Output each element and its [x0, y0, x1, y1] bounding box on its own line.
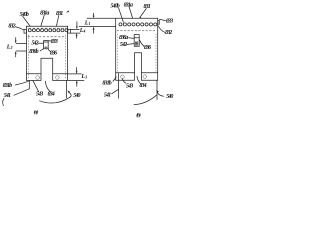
- leader 543 (a): [33, 81, 39, 92]
- hidden line 833 dashed horizontal (a): [28, 36, 66, 38]
- leader 831b (b): [113, 77, 116, 82]
- tab 832 left (a): [24, 29, 26, 33]
- leader 540b (a): [23, 16, 30, 26]
- svg-text:L1: L1: [84, 20, 91, 26]
- terminals 831 row (a): 8 circles with ticks: [28, 28, 68, 32]
- dashed vertical left (b): [117, 34, 119, 72]
- svg-text:543: 543: [126, 83, 133, 89]
- svg-text:831a: 831a: [40, 10, 49, 16]
- svg-text:540: 540: [166, 94, 173, 100]
- svg-text:(a): (a): [34, 108, 39, 115]
- leader 540 (b) arc: [134, 95, 157, 104]
- component 836 rect (b): [134, 35, 139, 47]
- leader 543 (b): [122, 79, 126, 83]
- svg-text:836a: 836a: [119, 35, 128, 41]
- leader 831 (b) with arrow: [141, 9, 147, 17]
- leader 541 (a): [14, 89, 29, 96]
- dashed circle 834 left (a): [36, 76, 40, 80]
- leader 836 (a): [48, 49, 50, 52]
- stray arc fragment far left: [3, 99, 4, 106]
- svg-text:834: 834: [139, 83, 146, 89]
- terminals 831 row (b): 8 circles: [119, 23, 157, 26]
- leader 834 (a): [45, 81, 50, 92]
- figure (b) body outline with bottom slot: [116, 18, 158, 80]
- seam line (a): [26, 73, 67, 75]
- dimension L1 between figures: [87, 17, 115, 19]
- leader 542 (a): [38, 42, 44, 44]
- component 836 rect (a): [44, 41, 49, 49]
- leader 832 (b): [158, 26, 165, 32]
- leader 831b (a): [15, 81, 28, 85]
- dashed circle right (b): [143, 75, 147, 79]
- svg-text:542: 542: [31, 41, 38, 47]
- lead 541 (b): [118, 74, 120, 99]
- leader 831a (b): [129, 7, 133, 18]
- leader 833 (b): [159, 19, 165, 20]
- leader 541 (b): [112, 89, 119, 94]
- leader 540b (b): [119, 8, 124, 22]
- leader 540 (a) arc: [40, 97, 71, 103]
- lead 541 (a): [28, 80, 30, 88]
- leader 836a (b): [129, 37, 135, 40]
- svg-text:833: 833: [51, 39, 58, 45]
- svg-text:542: 542: [120, 42, 127, 48]
- svg-text:831: 831: [144, 4, 151, 10]
- seam line (b): [116, 72, 158, 74]
- svg-text:832: 832: [165, 30, 172, 36]
- svg-text:543: 543: [36, 92, 43, 98]
- leader 836b (a): [40, 49, 43, 51]
- leader 834 (b): [137, 76, 140, 83]
- svg-text:540: 540: [73, 93, 80, 99]
- edge line bottom-right (b): [156, 80, 158, 99]
- leader 832 (a): [15, 27, 23, 30]
- dashed circle left (b): [121, 75, 125, 79]
- svg-text:833: 833: [166, 19, 173, 25]
- dashed vertical left (a): [27, 35, 29, 79]
- svg-text:L3: L3: [80, 74, 87, 80]
- leader 831a (a): [41, 15, 45, 26]
- tab right (a): [68, 29, 71, 33]
- dashed circle right (a): [56, 76, 60, 80]
- dashed vertical right (a): [64, 35, 66, 79]
- dimension L4 right of (a): [71, 29, 80, 33]
- tab 832 right (b): [158, 21, 160, 25]
- svg-text:836: 836: [50, 51, 57, 57]
- svg-text:836b: 836b: [29, 49, 38, 55]
- leader 836 (b): [139, 40, 144, 47]
- dashed vertical right (b): [155, 34, 157, 72]
- dimension L2 left of (a): [16, 43, 26, 51]
- svg-text:834: 834: [48, 91, 55, 97]
- svg-text:831a: 831a: [124, 2, 133, 8]
- leader 833 (a): [48, 40, 51, 42]
- svg-text:831: 831: [56, 11, 63, 17]
- lead/edge line bottom-right (a): [66, 80, 68, 98]
- svg-text:831b: 831b: [3, 83, 12, 89]
- small mark top right of (a): [66, 10, 69, 12]
- dimension L3 right-bottom of (a): [68, 74, 84, 81]
- leader 542 (b): [127, 43, 135, 46]
- svg-text:832: 832: [8, 24, 15, 30]
- svg-text:541: 541: [104, 92, 111, 98]
- svg-text:836: 836: [144, 45, 151, 51]
- figure (a) body 540 outline with bottom slot: [26, 26, 67, 80]
- leader 831 (a) with arrow: [57, 15, 59, 23]
- svg-text:541: 541: [4, 93, 11, 99]
- hidden dashed horizontal (b): [117, 30, 156, 32]
- svg-text:831b: 831b: [102, 81, 111, 87]
- svg-text:L2: L2: [6, 44, 13, 50]
- svg-text:(b): (b): [136, 111, 141, 118]
- svg-text:540b: 540b: [20, 12, 29, 18]
- svg-text:540b: 540b: [110, 4, 119, 10]
- svg-text:L4: L4: [79, 28, 86, 34]
